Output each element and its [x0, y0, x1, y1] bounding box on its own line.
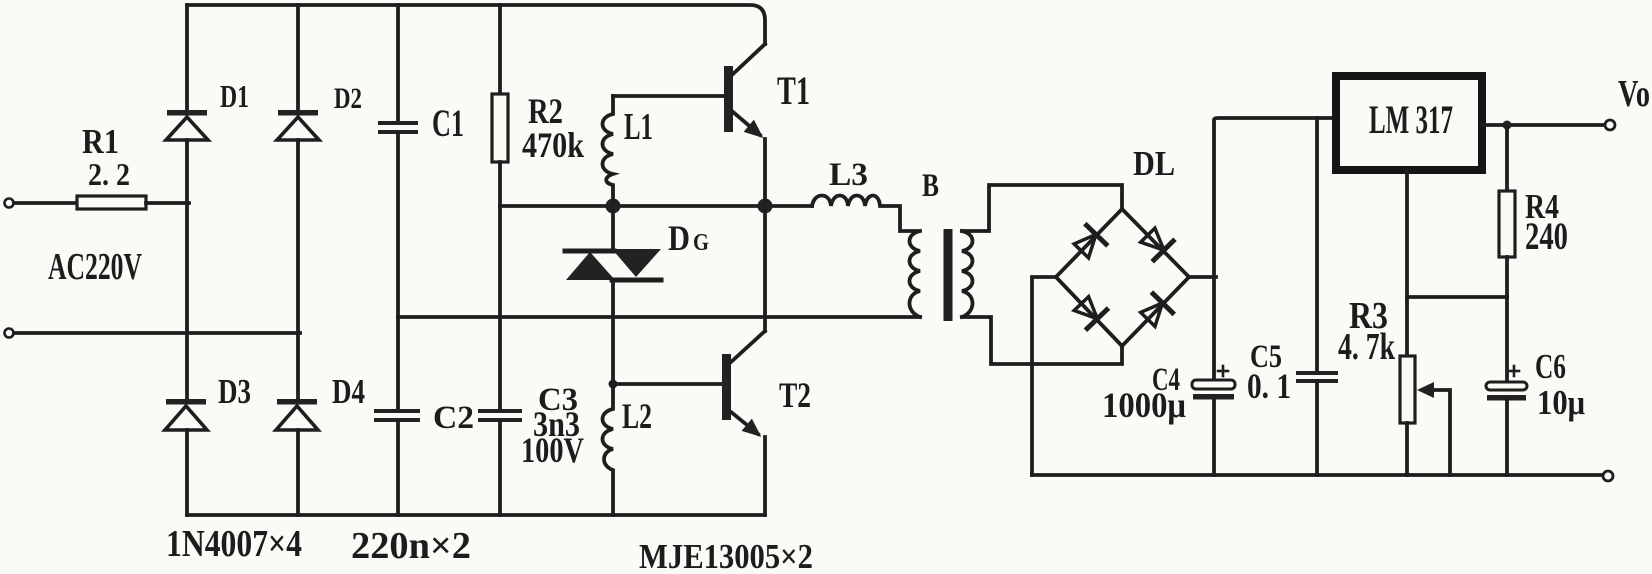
svg-text:240: 240 [1525, 216, 1568, 258]
wire bridge right leg [296, 5, 300, 110]
svg-text:B: B [922, 168, 939, 204]
wire R2 C3 leg top [498, 5, 502, 94]
wire positive rail vertical [1214, 118, 1336, 380]
svg-text:L3: L3 [829, 156, 868, 193]
ground rail right section [1032, 473, 1603, 477]
DL diode bottom-left [1072, 294, 1107, 329]
DL diode bottom-right [1138, 294, 1173, 329]
resistor R4 [1499, 125, 1515, 297]
bottom rail [187, 513, 765, 517]
svg-text:L2: L2 [622, 396, 652, 436]
svg-text:220n×2: 220n×2 [351, 525, 471, 567]
resistor R1 [77, 196, 146, 209]
bridge rectifier DL diamond [1056, 209, 1189, 346]
wire midpoint rail to transformer [398, 315, 920, 319]
svg-text:G: G [693, 229, 709, 256]
potentiometer R3 [1400, 356, 1450, 475]
transistor T1 [724, 44, 768, 206]
svg-text:2. 2: 2. 2 [88, 156, 130, 192]
diode D2 [277, 110, 319, 140]
wire [185, 430, 189, 515]
output terminal bottom [1603, 471, 1613, 481]
diode D4 [276, 399, 318, 430]
capacitor C3 [478, 409, 522, 422]
wire [14, 331, 300, 335]
wire adj link [1407, 295, 1507, 299]
inductor L3 [812, 196, 917, 232]
node out [1503, 121, 1512, 130]
svg-text:MJE13005×2: MJE13005×2 [639, 538, 813, 574]
transistor T2 [722, 206, 766, 515]
wire [185, 140, 189, 399]
node B [758, 199, 773, 214]
svg-text:LM 317: LM 317 [1369, 98, 1453, 142]
svg-text:D4: D4 [332, 372, 365, 411]
svg-text:D: D [668, 219, 690, 259]
diode D1 [166, 110, 208, 140]
svg-text:D2: D2 [334, 81, 362, 115]
DL diode top-left [1071, 225, 1106, 260]
wire [498, 162, 502, 410]
capacitor C4 [1192, 366, 1235, 475]
svg-text:C6: C6 [1535, 347, 1566, 386]
wire [498, 422, 502, 515]
svg-text:470k: 470k [522, 126, 584, 166]
wire [296, 430, 300, 515]
inductor L1 [603, 96, 725, 206]
wire [14, 201, 77, 205]
DL diode top-right [1139, 225, 1174, 260]
diac DG [565, 206, 661, 384]
svg-text:4. 7k: 4. 7k [1338, 326, 1395, 368]
capacitor C1 [378, 121, 418, 134]
wire DL right vertex [1189, 275, 1216, 279]
svg-text:10μ: 10μ [1537, 384, 1585, 422]
wire LM317 adj [1405, 170, 1409, 356]
resistor R2 [492, 94, 508, 162]
top rail [187, 5, 765, 44]
svg-text:1000μ: 1000μ [1102, 386, 1186, 426]
svg-text:100V: 100V [521, 431, 584, 471]
transformer B secondary winding [962, 185, 1122, 364]
svg-text:1N4007×4: 1N4007×4 [166, 522, 302, 564]
transformer B primary winding [910, 231, 921, 317]
wire [396, 134, 400, 410]
svg-text:Vo: Vo [1618, 73, 1650, 115]
transformer core [944, 229, 953, 321]
node C [609, 380, 618, 389]
capacitor C5 [1296, 118, 1338, 475]
wire [296, 140, 300, 399]
diode D3 [165, 399, 207, 430]
regulator U1 LM317 [1336, 76, 1482, 170]
wire DL left vertex to ground rail [1032, 277, 1056, 475]
node A [606, 199, 621, 214]
wire oscillator rail [500, 204, 812, 208]
capacitor C6 [1486, 297, 1527, 475]
svg-text:C1: C1 [432, 102, 464, 145]
inductor L2 [603, 384, 723, 515]
svg-text:T1: T1 [777, 69, 810, 113]
wire [146, 201, 189, 205]
svg-text:D1: D1 [220, 80, 249, 115]
wire output [1482, 123, 1605, 127]
svg-text:0. 1: 0. 1 [1247, 367, 1291, 406]
wire C1 C2 leg [396, 5, 400, 122]
output terminal Vo [1605, 120, 1615, 130]
svg-text:C2: C2 [433, 399, 474, 436]
svg-text:AC220V: AC220V [48, 246, 142, 288]
AC input terminal bottom [5, 329, 14, 338]
svg-text:T2: T2 [779, 374, 811, 414]
wire [396, 422, 400, 515]
svg-text:D3: D3 [218, 372, 251, 411]
svg-text:L1: L1 [624, 105, 653, 148]
AC input terminal top [5, 199, 14, 208]
wire bridge left leg [185, 5, 189, 110]
capacitor C2 [374, 409, 420, 422]
svg-text:DL: DL [1133, 145, 1175, 184]
